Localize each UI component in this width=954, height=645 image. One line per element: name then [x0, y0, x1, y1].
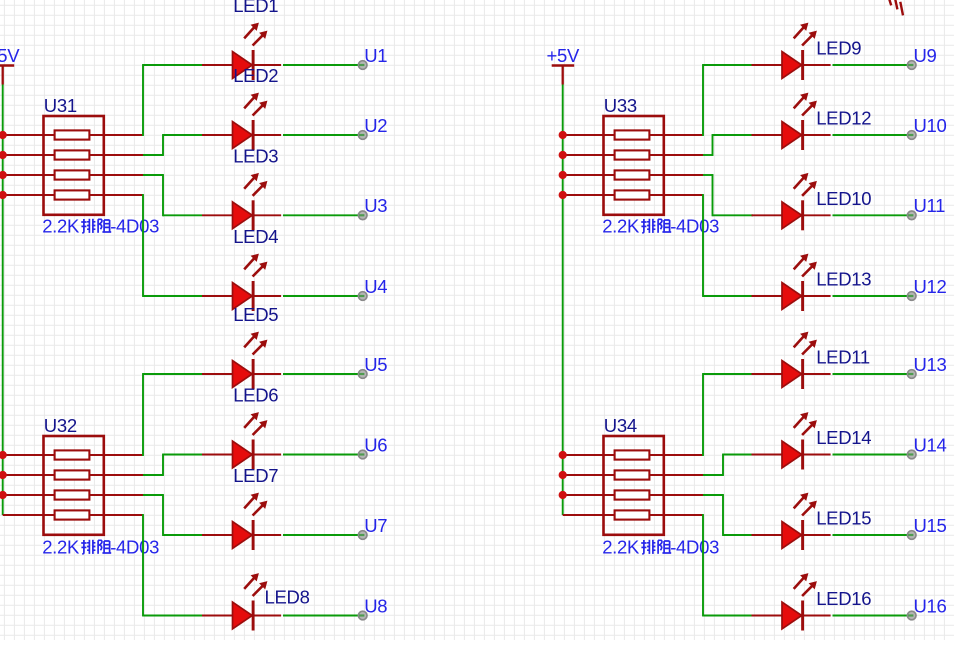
junction dot: [559, 151, 567, 159]
wire U3x pin to LED row 5 right: [703, 373, 753, 456]
LED LED5 anode pin: [202, 373, 235, 375]
LED LED16 cathode pin: [803, 615, 831, 617]
designator label LED4: [233, 226, 278, 247]
svg-text:-4D03: -4D03: [670, 537, 719, 558]
designator label LED16: [816, 588, 871, 609]
svg-text:U34: U34: [604, 415, 637, 436]
LED LED12 light arrows: [794, 93, 817, 116]
wire +5V rail right: [562, 85, 564, 516]
designator U31: [44, 95, 77, 116]
power +5V: [0, 45, 20, 85]
designator label LED5: [233, 304, 278, 325]
designator label LED14: [816, 427, 871, 448]
LED LED5 light arrows: [244, 332, 267, 355]
pin port U15: [907, 531, 916, 540]
wire U3x pin to LED row 3 left: [143, 174, 202, 216]
pin port U13: [907, 370, 916, 379]
pin port U10: [907, 131, 916, 140]
net label U6: [364, 434, 387, 455]
LED LED10 light arrows: [794, 173, 817, 196]
pin port U16: [907, 611, 916, 620]
LED LED4 anode pin: [202, 295, 235, 297]
LED LED7 anode pin: [202, 534, 235, 536]
LED LED8 cathode bar: [252, 601, 255, 631]
LED LED14 cathode pin: [803, 454, 831, 456]
value 2.2K排阻-4D03 of U31: [42, 216, 159, 237]
wire U3x pin to LED row 2 right: [703, 134, 753, 156]
pin port U3: [358, 211, 367, 220]
LED LED10 anode pin: [752, 214, 785, 216]
wire LED LED9 to port: [833, 64, 908, 66]
LED LED6 cathode bar: [252, 440, 255, 470]
svg-text:LED3: LED3: [233, 146, 278, 167]
pin port U5: [358, 370, 367, 379]
wire LED LED10 to port: [833, 214, 908, 216]
wire LED LED15 to port: [833, 534, 908, 536]
net label U12: [914, 276, 947, 297]
LED LED9 anode pin: [752, 64, 785, 66]
LED LED14 light arrows: [794, 412, 817, 435]
junction dot: [0, 491, 7, 499]
designator U34: [604, 415, 637, 436]
net label U8: [364, 595, 387, 616]
pin port U12: [907, 292, 916, 301]
svg-text:+5V: +5V: [547, 45, 580, 66]
LED LED9 triangle: [782, 52, 802, 79]
svg-text:LED12: LED12: [816, 108, 871, 129]
LED LED12 cathode pin: [803, 134, 831, 136]
net label U14: [914, 434, 947, 455]
svg-text:+5V: +5V: [0, 45, 20, 66]
LED LED4 cathode pin: [253, 295, 281, 297]
LED LED7 cathode bar: [252, 520, 255, 550]
LED LED15 triangle: [782, 522, 802, 549]
LED LED1 anode pin: [202, 64, 235, 66]
cropped LED arrows top right: [889, 0, 903, 15]
net label U1: [364, 45, 387, 66]
LED LED6 cathode pin: [253, 454, 281, 456]
svg-text:2.2K: 2.2K: [602, 216, 640, 237]
svg-text:-4D03: -4D03: [110, 216, 159, 237]
LED LED1 triangle: [233, 52, 253, 79]
resistor network U31 pins: [3, 135, 143, 195]
wire LED LED13 to port: [833, 295, 908, 297]
resistor network U32 pins: [3, 455, 143, 515]
LED LED15 cathode bar: [801, 520, 804, 550]
designator label LED6: [233, 385, 278, 406]
resistor network U31 body: [44, 116, 104, 215]
designator label LED3: [233, 146, 278, 167]
LED LED12 cathode bar: [801, 120, 804, 150]
svg-text:LED15: LED15: [816, 508, 871, 529]
LED LED15 cathode pin: [803, 534, 831, 536]
LED LED2 cathode pin: [253, 134, 281, 136]
resistor network U33 body: [604, 116, 664, 215]
net label U7: [364, 515, 387, 536]
junction dot: [0, 171, 7, 179]
value 2.2K排阻-4D03 of U32: [42, 537, 159, 558]
svg-text:U5: U5: [364, 354, 387, 375]
svg-text:U8: U8: [364, 595, 387, 616]
svg-text:U33: U33: [604, 95, 637, 116]
wire U3x pin to LED row 7 left: [143, 494, 202, 536]
svg-text:LED7: LED7: [233, 465, 278, 486]
designator label LED8: [265, 587, 310, 608]
LED LED16 cathode bar: [801, 601, 804, 631]
designator label LED13: [816, 269, 871, 290]
svg-text:U32: U32: [44, 415, 77, 436]
svg-text:U15: U15: [914, 515, 947, 536]
designator label LED1: [233, 0, 278, 16]
junction dot: [0, 191, 7, 199]
wire U3x pin to LED row 5 left: [143, 373, 202, 456]
LED LED12 triangle: [782, 122, 802, 149]
svg-text:LED8: LED8: [265, 587, 310, 608]
resistor network U34 body: [604, 436, 664, 535]
LED LED3 anode pin: [202, 214, 235, 216]
svg-text:2.2K: 2.2K: [602, 537, 640, 558]
net label U4: [364, 276, 387, 297]
pin port U8: [358, 611, 367, 620]
wire LED LED8 to port: [283, 615, 358, 617]
value 2.2K排阻-4D03 of U33: [602, 216, 719, 237]
svg-text:-4D03: -4D03: [670, 216, 719, 237]
svg-text:-4D03: -4D03: [110, 537, 159, 558]
svg-text:U9: U9: [914, 45, 937, 66]
LED LED11 cathode bar: [801, 359, 804, 389]
LED LED16 triangle: [782, 602, 802, 629]
LED LED3 light arrows: [244, 173, 267, 196]
LED LED3 cathode pin: [253, 214, 281, 216]
junction dot: [0, 451, 7, 459]
svg-text:U2: U2: [364, 115, 387, 136]
svg-text:U31: U31: [44, 95, 77, 116]
LED LED10 cathode bar: [801, 200, 804, 230]
LED LED15 light arrows: [794, 493, 817, 516]
designator U33: [604, 95, 637, 116]
net label U10: [914, 115, 947, 136]
LED LED13 anode pin: [752, 295, 785, 297]
svg-text:U14: U14: [914, 434, 947, 455]
power +5V: [547, 45, 580, 85]
svg-text:LED14: LED14: [816, 427, 871, 448]
pin port U4: [358, 292, 367, 301]
svg-text:U13: U13: [914, 354, 947, 375]
net label U13: [914, 354, 947, 375]
LED LED16 anode pin: [752, 615, 785, 617]
svg-text:LED13: LED13: [816, 269, 871, 290]
net label U15: [914, 515, 947, 536]
junction dot: [559, 451, 567, 459]
LED LED2 cathode bar: [252, 120, 255, 150]
LED LED2 triangle: [233, 122, 253, 149]
pin port U14: [907, 450, 916, 459]
wire U3x pin to LED row 4 left: [143, 194, 202, 297]
LED LED14 triangle: [782, 441, 802, 468]
net label U2: [364, 115, 387, 136]
wire U3x pin to LED row 6 left: [143, 454, 202, 476]
LED LED5 triangle: [233, 361, 253, 388]
net label U9: [914, 45, 937, 66]
junction dot: [559, 171, 567, 179]
resistor network U32 body: [44, 436, 104, 535]
LED LED11 anode pin: [752, 373, 785, 375]
junction dot: [559, 191, 567, 199]
LED LED14 cathode bar: [801, 440, 804, 470]
wire U3x pin to LED row 2 left: [143, 134, 202, 156]
wire U3x pin to LED row 8 left: [143, 514, 202, 616]
junction dot: [559, 491, 567, 499]
svg-text:2.2K: 2.2K: [42, 537, 80, 558]
svg-text:LED2: LED2: [233, 65, 278, 86]
wire LED LED3 to port: [283, 214, 358, 216]
svg-text:U11: U11: [914, 195, 946, 216]
LED LED8 light arrows: [244, 573, 267, 596]
LED LED2 light arrows: [244, 93, 267, 116]
LED LED13 triangle: [782, 283, 802, 310]
wire LED LED11 to port: [833, 373, 908, 375]
designator label LED9: [816, 38, 861, 59]
svg-text:U1: U1: [364, 45, 387, 66]
LED LED9 light arrows: [794, 23, 817, 46]
svg-text:2.2K: 2.2K: [42, 216, 80, 237]
junction dot: [0, 151, 7, 159]
wire U3x pin to LED row 7 right: [703, 494, 753, 536]
LED LED4 cathode bar: [252, 281, 255, 311]
wire +5V rail left: [2, 85, 4, 516]
LED LED8 triangle: [233, 602, 253, 629]
net label U16: [914, 595, 947, 616]
svg-text:LED1: LED1: [233, 0, 278, 16]
resistor network U34 pins: [563, 455, 703, 515]
designator label LED11: [816, 347, 870, 368]
pin port U2: [358, 131, 367, 140]
LED LED3 cathode bar: [252, 200, 255, 230]
LED LED2 anode pin: [202, 134, 235, 136]
LED LED1 cathode pin: [253, 64, 281, 66]
net label U3: [364, 195, 387, 216]
LED LED1 light arrows: [244, 23, 267, 46]
svg-text:U3: U3: [364, 195, 387, 216]
junction dot: [0, 471, 7, 479]
wire U3x pin to LED row 3 right: [703, 174, 753, 216]
LED LED15 anode pin: [752, 534, 785, 536]
LED LED11 triangle: [782, 361, 802, 388]
designator label LED2: [233, 65, 278, 86]
junction dot: [0, 131, 7, 139]
net label U11: [914, 195, 946, 216]
wire U3x pin to LED row 6 right: [703, 454, 753, 476]
pin port U9: [907, 61, 916, 70]
wire LED LED1 to port: [283, 64, 358, 66]
LED LED4 light arrows: [244, 254, 267, 277]
junction dot: [559, 131, 567, 139]
svg-text:LED4: LED4: [233, 226, 278, 247]
wire LED LED6 to port: [283, 454, 358, 456]
svg-text:U16: U16: [914, 595, 947, 616]
LED LED6 triangle: [233, 441, 253, 468]
resistor network U33 pins: [563, 135, 703, 195]
wire LED LED2 to port: [283, 134, 358, 136]
designator label LED15: [816, 508, 871, 529]
LED LED10 triangle: [782, 202, 802, 229]
svg-text:U4: U4: [364, 276, 387, 297]
LED LED1 cathode bar: [252, 50, 255, 80]
svg-text:LED11: LED11: [816, 347, 870, 368]
LED LED4 triangle: [233, 283, 253, 310]
svg-text:LED9: LED9: [816, 38, 861, 59]
wire U3x pin to LED row 1 left: [143, 64, 202, 136]
wire LED LED14 to port: [833, 454, 908, 456]
pin port U7: [358, 531, 367, 540]
LED LED13 cathode pin: [803, 295, 831, 297]
LED LED13 cathode bar: [801, 281, 804, 311]
svg-text:LED6: LED6: [233, 385, 278, 406]
LED LED8 cathode pin: [253, 615, 281, 617]
net label U5: [364, 354, 387, 375]
LED LED10 cathode pin: [803, 214, 831, 216]
LED LED7 cathode pin: [253, 534, 281, 536]
svg-text:LED16: LED16: [816, 588, 871, 609]
designator label LED10: [816, 188, 871, 209]
LED LED13 light arrows: [794, 254, 817, 277]
svg-text:U7: U7: [364, 515, 387, 536]
wire LED LED16 to port: [833, 615, 908, 617]
wire U3x pin to LED row 4 right: [703, 194, 753, 297]
LED LED16 light arrows: [794, 573, 817, 596]
designator label LED7: [233, 465, 278, 486]
junction dot: [559, 471, 567, 479]
LED LED7 triangle: [233, 522, 253, 549]
svg-text:LED5: LED5: [233, 304, 278, 325]
LED LED9 cathode bar: [801, 50, 804, 80]
wire U3x pin to LED row 1 right: [703, 64, 753, 136]
designator label LED12: [816, 108, 871, 129]
svg-text:U12: U12: [914, 276, 947, 297]
wire LED LED4 to port: [283, 295, 358, 297]
pin port U11: [907, 211, 916, 220]
svg-text:U6: U6: [364, 434, 387, 455]
LED LED5 cathode bar: [252, 359, 255, 389]
svg-text:U10: U10: [914, 115, 947, 136]
wire LED LED7 to port: [283, 534, 358, 536]
LED LED14 anode pin: [752, 454, 785, 456]
pin port U1: [358, 61, 367, 70]
wire U3x pin to LED row 8 right: [703, 514, 753, 616]
LED LED11 cathode pin: [803, 373, 831, 375]
LED LED3 triangle: [233, 202, 253, 229]
LED LED8 anode pin: [202, 615, 235, 617]
svg-text:LED10: LED10: [816, 188, 871, 209]
value 2.2K排阻-4D03 of U34: [602, 537, 719, 558]
LED LED5 cathode pin: [253, 373, 281, 375]
LED LED9 cathode pin: [803, 64, 831, 66]
LED LED6 light arrows: [244, 412, 267, 435]
LED LED6 anode pin: [202, 454, 235, 456]
pin port U6: [358, 450, 367, 459]
wire LED LED12 to port: [833, 134, 908, 136]
wire LED LED5 to port: [283, 373, 358, 375]
LED LED11 light arrows: [794, 332, 817, 355]
designator U32: [44, 415, 77, 436]
LED LED12 anode pin: [752, 134, 785, 136]
LED LED7 light arrows: [244, 493, 267, 516]
